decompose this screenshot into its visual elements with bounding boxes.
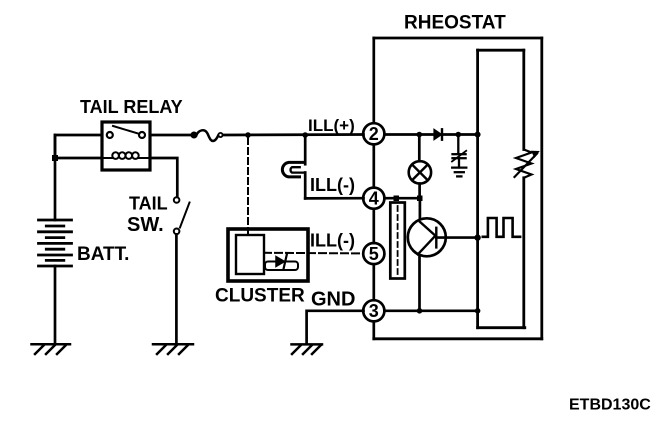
- dashed wire ILL(-) cluster to pin 5: [264, 252, 364, 255]
- relay coil to tail switch wire: [150, 158, 177, 197]
- ground (tail switch): [153, 344, 193, 354]
- wire pin2 to diode: [384, 133, 434, 136]
- wire pin2 up to rheostat top: [372, 38, 375, 123]
- wire battery to relay switch: [55, 135, 102, 158]
- rheostat bottom wire: [374, 337, 542, 340]
- rail B lower: [522, 178, 525, 328]
- ground (pin 3): [292, 344, 323, 354]
- wire pin3 to bottom rail: [372, 321, 375, 338]
- resistor box (vertical): [390, 203, 405, 279]
- connector pin 2: [363, 123, 384, 144]
- wire diode to rail A: [442, 133, 478, 136]
- relay switch arm: [113, 126, 139, 134]
- inner top wire: [478, 49, 524, 52]
- wire fuse to pin 2: [223, 133, 364, 136]
- svg-text:5: 5: [369, 244, 379, 264]
- lamp L1 (circle-X): [409, 135, 431, 199]
- svg-text:RHEOSTAT: RHEOSTAT: [404, 13, 506, 34]
- node junction lamp/transistor column: [417, 196, 423, 202]
- svg-text:4: 4: [369, 188, 379, 208]
- wire transistor base to rail A: [436, 236, 477, 239]
- bulb (illumination lamp): [282, 162, 305, 177]
- diode D1: [434, 129, 442, 139]
- svg-text:ILL(-): ILL(-): [310, 231, 355, 251]
- rail A (inner left): [476, 50, 479, 328]
- cluster lamp cartridge: [265, 262, 298, 271]
- tail switch TAIL SW.: [174, 197, 190, 344]
- rheostat element R1 (variable resistor): [515, 150, 539, 178]
- wire pin4 to transistor branch: [384, 197, 421, 200]
- node junction bulb branch: [302, 132, 308, 138]
- svg-text:GND: GND: [311, 289, 355, 311]
- node junction capacitor branch: [456, 132, 462, 138]
- svg-text:BATT.: BATT.: [77, 244, 129, 265]
- wire bulb to pin 4: [305, 197, 363, 200]
- connector pin 3: [363, 300, 384, 321]
- transistor Q1: [408, 198, 446, 311]
- svg-text:TAIL: TAIL: [129, 194, 168, 214]
- node junction base rail A: [474, 234, 480, 240]
- node junction cluster drop: [245, 132, 251, 138]
- bulb branch vertical: [304, 135, 307, 164]
- cluster lamp diode: [276, 257, 285, 267]
- ground (capacitor): [452, 168, 466, 177]
- node junction lamp branch: [417, 132, 423, 138]
- relay coil: [102, 152, 150, 159]
- node junction rail A bottom: [475, 308, 481, 314]
- relay switch contacts: [107, 132, 113, 138]
- node junction resistor box top: [394, 196, 400, 202]
- svg-text:TAIL RELAY: TAIL RELAY: [80, 97, 183, 117]
- svg-text:SW.: SW.: [127, 214, 164, 236]
- wire pin3 to rail A: [384, 309, 477, 312]
- svg-text:2: 2: [369, 124, 379, 144]
- connector pin 4: [363, 188, 384, 209]
- cluster inner gauge rect: [236, 235, 264, 274]
- inner bottom wire: [478, 326, 525, 329]
- svg-text:3: 3: [369, 301, 379, 321]
- wire pin 3 to ground: [307, 311, 364, 344]
- rheostat right rail: [540, 38, 543, 339]
- wire pin5-pin3: [372, 264, 375, 300]
- relay box TAIL RELAY: [102, 122, 150, 170]
- wire relay to fuse: [150, 134, 193, 137]
- cluster box: [228, 229, 308, 281]
- capacitor C1: [452, 135, 466, 168]
- square wave signal: [483, 218, 520, 237]
- svg-text:ILL(+): ILL(+): [308, 116, 355, 135]
- dashed wire to cluster: [247, 138, 249, 234]
- wire pin4-pin5: [372, 209, 375, 243]
- ground (battery): [32, 344, 71, 354]
- svg-text:CLUSTER: CLUSTER: [215, 286, 305, 307]
- node junction rail A top wire: [475, 132, 481, 138]
- svg-text:ETBD130C: ETBD130C: [569, 397, 651, 414]
- fusible link: [191, 130, 222, 141]
- connector pin 5: [363, 243, 384, 264]
- battery BATT.: [39, 135, 72, 344]
- node junction batt: [52, 155, 58, 161]
- rail B upper (to rheostat element): [522, 50, 525, 149]
- wire pin2-pin4: [372, 144, 375, 187]
- svg-text:ILL(-): ILL(-): [310, 175, 355, 195]
- wire battery to relay coil: [55, 157, 102, 160]
- node junction emitter: [417, 308, 423, 314]
- rheostat top wire: [374, 37, 542, 40]
